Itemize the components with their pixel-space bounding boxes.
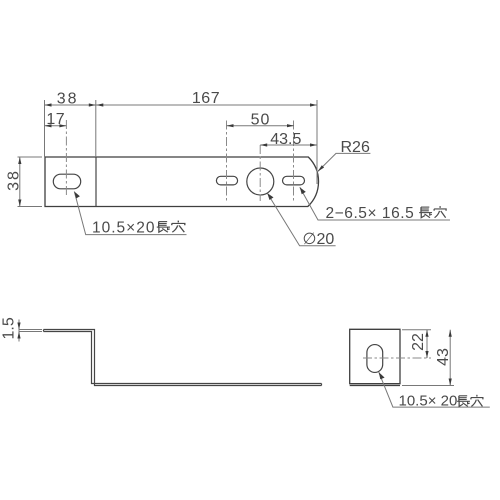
svg-text:38: 38	[6, 169, 23, 191]
svg-text:43.5: 43.5	[270, 131, 301, 148]
svg-text:10.5×20: 10.5×20	[92, 220, 155, 237]
svg-text:17: 17	[46, 111, 65, 128]
svg-text:1.5: 1.5	[1, 317, 18, 339]
svg-text:∅20: ∅20	[303, 231, 335, 248]
svg-text:2−6.5× 16.5: 2−6.5× 16.5	[326, 205, 415, 222]
svg-text:43: 43	[435, 348, 452, 366]
svg-text:22: 22	[410, 333, 427, 351]
svg-text:167: 167	[192, 90, 220, 107]
svg-text:38: 38	[57, 91, 79, 108]
svg-text:50: 50	[251, 112, 271, 129]
svg-text:R26: R26	[341, 139, 370, 156]
svg-text:10.5× 20: 10.5× 20	[399, 392, 458, 409]
